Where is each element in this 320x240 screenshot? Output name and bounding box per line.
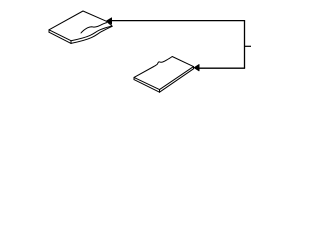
card D1 left thickness edge <box>48 30 50 32</box>
card D2 bottom-left bottom edge <box>134 80 160 93</box>
card D2 top face outline with curl notch on upper-left edge <box>134 57 194 90</box>
wire: bottom horizontal to arrow A2 <box>199 67 246 69</box>
arrowhead A1 (into top card) <box>107 18 112 24</box>
wire: top horizontal from junction to arrow A1 <box>111 20 245 22</box>
wire: right stub tick <box>245 45 252 47</box>
card D2 (bottom document/card icon) <box>134 57 194 93</box>
card D1 wavy top-sheet line <box>81 23 107 33</box>
card D2 south corner join <box>159 90 161 93</box>
card D2 left thickness edge <box>133 77 135 79</box>
card D1 bottom-left bottom edge <box>49 32 71 43</box>
card D1 south corner join <box>70 41 72 44</box>
card D1 top face outline <box>49 11 112 41</box>
arrowhead A2 (into bottom card) <box>194 65 199 71</box>
wire: right vertical <box>244 21 246 69</box>
card D2 bottom edge (bottom-right) <box>160 67 194 93</box>
card D1 (top document/card icon) <box>49 11 112 43</box>
card D1 bottom edge (bottom-right) <box>71 26 112 43</box>
